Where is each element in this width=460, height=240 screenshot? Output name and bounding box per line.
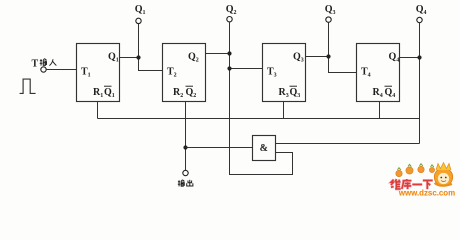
pulse waveform symbol — [20, 79, 36, 93]
wire AND output feedback — [276, 143, 420, 145]
watermark mascot — [434, 163, 452, 187]
wire Q3 column to T4 — [329, 22, 357, 72]
wire R3 pin — [283, 102, 285, 119]
watermark decorations (oranges) — [396, 164, 435, 177]
wire Q2 column down to AND loop — [230, 22, 293, 175]
flip-flop T1 box U1 — [77, 44, 120, 102]
node output terminal (shu chu) — [183, 170, 188, 175]
wire Q3 output stub — [306, 56, 329, 58]
wire Q2 output stub — [206, 53, 230, 55]
flip-flop T4 box U4 — [357, 44, 400, 102]
wire T3 input — [230, 68, 263, 70]
node Q1 terminal — [136, 18, 141, 23]
wire AND input from output node — [186, 147, 253, 149]
node Q2 junction — [227, 51, 231, 55]
wire T1 input — [46, 69, 76, 71]
wire Q1 output stub — [120, 57, 139, 59]
wire R1 pin — [97, 102, 99, 119]
svg-text:&: & — [260, 143, 268, 154]
AND gate U5 — [253, 136, 276, 161]
flip-flop T3 box U3 — [263, 44, 306, 102]
wire Q4 output stub — [400, 57, 420, 59]
wire reset line R — [98, 118, 420, 120]
node output junction — [183, 145, 187, 149]
watermark text wei ku yi xia (red) — [391, 179, 433, 189]
wire Q1 column to T2 — [139, 24, 163, 71]
label output — [178, 180, 185, 187]
node T3 junction — [227, 66, 231, 70]
wire R4 pin — [379, 102, 381, 119]
flip-flop T2 box U2 — [163, 44, 206, 102]
node Q4 junction — [417, 55, 421, 59]
node Q3 terminal — [326, 17, 331, 22]
node Q3 junction — [326, 54, 330, 58]
node Q4 terminal — [417, 17, 422, 22]
wire Q4 column down to AND output — [419, 23, 421, 144]
svg-text:www.dzsc.com: www.dzsc.com — [398, 189, 455, 198]
node Q1 junction — [136, 55, 140, 59]
node T input terminal — [41, 67, 46, 72]
wire FF2 bottom to output terminal — [185, 102, 187, 171]
svg-text:T: T — [32, 59, 39, 70]
node Q2 terminal — [227, 17, 232, 22]
